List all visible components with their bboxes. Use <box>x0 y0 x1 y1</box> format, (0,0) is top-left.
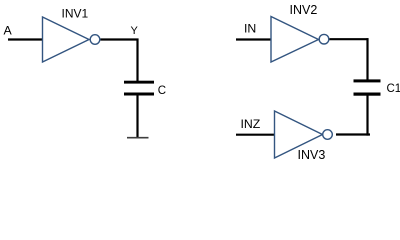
op-amp/inverter INV2 triangle <box>271 17 319 63</box>
wire down to capacitor C1 <box>366 38 368 79</box>
wire IN to INV2 input <box>236 38 272 40</box>
svg-text:Y: Y <box>131 25 139 37</box>
INV2 bubble <box>319 34 329 44</box>
wire INV2 output to capacitor C1 <box>330 38 369 40</box>
wire INV3 output to capacitor C1 <box>336 133 370 135</box>
capacitor C1 bottom plate <box>354 93 381 96</box>
svg-text:INV2: INV2 <box>290 3 318 17</box>
capacitor C top plate <box>124 81 154 84</box>
svg-text:INV1: INV1 <box>62 7 89 21</box>
op-amp/inverter INV3 triangle <box>275 111 323 158</box>
capacitor C bottom plate <box>124 93 154 96</box>
svg-text:INV3: INV3 <box>298 148 326 162</box>
INV1 bubble <box>90 35 100 45</box>
op-amp/inverter INV1 triangle <box>43 17 90 62</box>
wire INZ to INV3 input <box>236 134 276 136</box>
wire A to INV1 input <box>8 38 43 40</box>
capacitor C1 top plate <box>354 79 381 82</box>
ground <box>127 137 149 139</box>
svg-text:IN: IN <box>244 22 256 36</box>
wire INV1 output to node Y <box>101 38 139 40</box>
svg-text:A: A <box>4 24 13 38</box>
wire capacitor C1 down to INV3 output <box>366 96 368 136</box>
INV3 bubble <box>323 130 333 140</box>
svg-text:C1: C1 <box>387 83 400 95</box>
svg-text:C: C <box>158 85 166 97</box>
wire capacitor C to ground <box>136 96 138 138</box>
svg-text:INZ: INZ <box>241 117 261 131</box>
wire Y down to capacitor C <box>136 39 138 82</box>
